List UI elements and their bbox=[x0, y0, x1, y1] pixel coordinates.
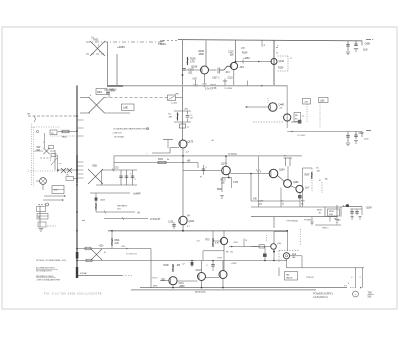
wire Q174 to Q184 bbox=[230, 173, 269, 175]
wire emitter Q104 to ground bbox=[204, 74, 206, 84]
svg-text:R171: R171 bbox=[158, 158, 164, 161]
wire heater return bbox=[77, 275, 122, 277]
wire +225V top bus bbox=[178, 40, 362, 41]
wire feed Q744 bbox=[229, 246, 271, 248]
svg-text:+2280: +2280 bbox=[179, 286, 186, 288]
filter capacitor C601C bbox=[132, 170, 134, 185]
transistor Q213 bbox=[296, 185, 303, 192]
wire left drop to rail bbox=[150, 249, 152, 288]
svg-text:Q104: Q104 bbox=[191, 65, 198, 69]
svg-text:R187: R187 bbox=[305, 175, 311, 177]
capacitor C175 bbox=[231, 178, 233, 189]
svg-text:+ INPUT SIGNAL AMPLIFIER: + INPUT SIGNAL AMPLIFIER bbox=[36, 279, 61, 282]
svg-text:REFERENCE DIAGS: REFERENCE DIAGS bbox=[36, 275, 54, 278]
svg-text:4.7K: 4.7K bbox=[215, 243, 220, 245]
capacitor C103 bbox=[182, 68, 186, 70]
title registered mark bbox=[353, 291, 359, 297]
transistor Q724 bbox=[198, 273, 206, 281]
wire -150V rail bbox=[251, 206, 342, 208]
wire vertical from transformer bbox=[107, 42, 109, 86]
wire 17.5VAC feed bbox=[96, 211, 135, 213]
regulator outline box bbox=[303, 167, 313, 169]
wire output Q114 to Q134 bbox=[236, 61, 273, 63]
capacitor C193 bbox=[173, 222, 175, 229]
svg-text:+5 AMP: +5 AMP bbox=[133, 193, 141, 196]
svg-text:+17XX: +17XX bbox=[231, 263, 238, 265]
svg-text:17.5 AC RT: 17.5 AC RT bbox=[150, 218, 161, 221]
svg-text:THRU +: THRU + bbox=[322, 228, 330, 230]
thermistor box bbox=[168, 95, 176, 101]
emitter network blob bbox=[298, 120, 302, 124]
svg-text:+225V: +225V bbox=[117, 45, 125, 49]
svg-text:2.2K: 2.2K bbox=[115, 243, 120, 245]
svg-text:Q134: Q134 bbox=[279, 60, 285, 63]
wire collector Q734 bbox=[222, 261, 224, 271]
resistor pair feedback bbox=[284, 157, 293, 159]
svg-text:Q193: Q193 bbox=[189, 220, 195, 223]
resistor on feed bbox=[85, 247, 91, 250]
wire collector Q724 bbox=[201, 261, 203, 273]
svg-text:15K: 15K bbox=[177, 265, 181, 267]
lamp housing bbox=[52, 186, 64, 194]
wire vertical winding return bbox=[116, 54, 118, 86]
resistor R171 bbox=[158, 161, 166, 163]
svg-text:C+100: C+100 bbox=[171, 103, 178, 105]
transistor Q194 bbox=[284, 180, 292, 188]
resistor R641 drop bbox=[111, 231, 113, 238]
wire winding to line box bbox=[105, 112, 131, 114]
wire base Q104 bbox=[183, 69, 201, 71]
filter capacitor C601B bbox=[126, 170, 128, 185]
svg-text:C+25: C+25 bbox=[168, 222, 174, 224]
transistor Q104 bbox=[201, 66, 209, 74]
svg-text:10K: 10K bbox=[230, 54, 234, 57]
wire feedback drop bbox=[287, 166, 289, 180]
capacitor across winding bbox=[108, 91, 110, 98]
svg-text:2.7K: 2.7K bbox=[190, 61, 195, 64]
svg-text:R709: R709 bbox=[164, 265, 170, 267]
wire dropdown C164 bbox=[258, 157, 260, 208]
svg-text:6.3V AC: 6.3V AC bbox=[205, 88, 213, 91]
junction dots on rails bbox=[182, 155, 184, 157]
wire lower link bbox=[251, 200, 300, 202]
svg-text:B10K: B10K bbox=[217, 189, 223, 191]
svg-text:TEK: TEK bbox=[368, 292, 373, 295]
wire winding to divider bbox=[105, 97, 168, 99]
svg-text:100K: 100K bbox=[199, 53, 205, 56]
transistor Q114 bbox=[230, 62, 237, 69]
wire lower feed bbox=[77, 260, 287, 262]
wire feed to Q144 bbox=[245, 106, 269, 108]
wire emitter Q704 down bbox=[223, 245, 225, 271]
wire bus corner down right bbox=[286, 86, 288, 128]
transistor Q704 upper bbox=[220, 237, 227, 244]
line voltage box bbox=[122, 104, 135, 111]
svg-text:+15V: +15V bbox=[233, 242, 238, 244]
svg-text:ALL READINGS WITH: ALL READINGS WITH bbox=[36, 267, 55, 270]
rectifier cluster D601 bbox=[104, 89, 112, 91]
potentiometer crossed bbox=[91, 249, 102, 260]
transistor Q754 dashed box bbox=[279, 250, 300, 252]
resistor R602 pair bbox=[58, 169, 77, 171]
bias box bbox=[294, 113, 301, 122]
node collector Q114 bbox=[235, 61, 237, 63]
resistor box R158 bbox=[328, 209, 340, 216]
wire into base Q114 bbox=[220, 66, 231, 70]
resistor R187 bbox=[311, 172, 313, 179]
wire +310 feed bbox=[77, 248, 122, 250]
wire stub test point bbox=[261, 41, 263, 48]
transistor Q174 bbox=[222, 166, 231, 175]
wire output rail upper bbox=[140, 287, 347, 289]
resistor R603 bbox=[95, 203, 97, 210]
svg-text:SEE PARTS: SEE PARTS bbox=[117, 205, 128, 208]
svg-text:R175: R175 bbox=[221, 180, 227, 182]
wire +325V lower heavy bus bbox=[108, 230, 288, 232]
resistor R103 bbox=[187, 57, 189, 65]
svg-text:A & B (AND C): A & B (AND C) bbox=[313, 296, 328, 299]
wire output feed rail bbox=[287, 267, 363, 269]
junction dots lower rails bbox=[182, 230, 184, 232]
svg-text:POWER: POWER bbox=[304, 220, 312, 222]
ground -150 left bbox=[336, 205, 338, 219]
wire collector Q174 up bbox=[225, 157, 227, 167]
svg-text:R641: R641 bbox=[115, 240, 121, 242]
tick marks on inverter wire bbox=[256, 169, 258, 172]
wire bus corner to +100V rail bbox=[287, 131, 362, 133]
filter capacitor C601A bbox=[120, 170, 122, 185]
fuse F601 label under bus bbox=[96, 89, 107, 95]
filter blob below bbox=[180, 124, 186, 128]
svg-text:TYPE RM45A: TYPE RM45A bbox=[286, 220, 298, 223]
wire emitter Q213 down bbox=[299, 193, 301, 207]
svg-text:Q174: Q174 bbox=[221, 163, 227, 166]
transistor Q173 upper bbox=[179, 140, 187, 148]
wire collector drop Q114 bbox=[235, 41, 237, 62]
svg-text:.001: .001 bbox=[188, 72, 193, 75]
bus tick mark bbox=[82, 220, 85, 222]
transformer T601 upper winding bbox=[90, 41, 105, 56]
wire Q184 to Q194 bbox=[278, 176, 284, 182]
arrow to heaters upper bbox=[44, 195, 64, 197]
RC pair on +225 drop bbox=[174, 110, 191, 112]
wire emitter Q714 bbox=[172, 285, 174, 288]
wire left ground bus bbox=[76, 86, 78, 278]
capacitor above bus bbox=[224, 79, 226, 86]
resistor R601 bbox=[58, 131, 77, 133]
capacitor C603 bbox=[95, 198, 98, 201]
resistor R709 bbox=[172, 264, 174, 272]
wire emitter Q114 down bbox=[233, 70, 235, 86]
wire -150V lower rail bbox=[251, 216, 337, 218]
select value box bbox=[285, 272, 298, 281]
resistor R175 bbox=[221, 178, 223, 193]
capacitor drop bbox=[212, 261, 214, 272]
transistor Q134 in dashed outline bbox=[271, 59, 277, 65]
filter caps +100V rail bbox=[347, 132, 349, 143]
wire collector Q744 top bbox=[274, 232, 287, 244]
wire -150V output link bbox=[342, 206, 362, 208]
dotted feedback line bbox=[319, 103, 321, 129]
transformer T601 middle winding bbox=[89, 97, 105, 113]
ground below Q104 bbox=[202, 83, 206, 85]
wire winding bottom lead bbox=[96, 184, 137, 186]
wire +325V heavy bus bbox=[107, 85, 288, 87]
svg-text:+350: +350 bbox=[192, 78, 198, 81]
wire emitter Q193 bbox=[182, 225, 184, 231]
svg-text:C601: C601 bbox=[92, 165, 98, 168]
wire down to ground block bbox=[39, 206, 41, 228]
svg-text:B1040 (220): B1040 (220) bbox=[195, 291, 206, 293]
wire column Q744 bbox=[273, 217, 275, 228]
svg-text:Q164: Q164 bbox=[279, 169, 285, 172]
svg-text:R134: R134 bbox=[278, 67, 284, 70]
svg-text:AT 325 B+: AT 325 B+ bbox=[228, 153, 238, 156]
svg-text:C618: C618 bbox=[359, 133, 365, 135]
switch internal wiring detail bbox=[44, 133, 46, 148]
wire drop to bus from Q134 bbox=[247, 81, 249, 86]
wire base feed Q174 bbox=[183, 170, 222, 172]
svg-text:115V: 115V bbox=[54, 190, 59, 192]
transistor Q744 bbox=[271, 244, 277, 250]
ground chassis bbox=[39, 228, 43, 230]
wire base Q173 bbox=[152, 148, 179, 154]
component near bus mid bbox=[66, 177, 74, 181]
filter caps -150V bbox=[350, 208, 362, 210]
wire collector column Q134 bbox=[273, 41, 275, 86]
svg-text:C608: C608 bbox=[365, 43, 371, 46]
filter capacitors C608 at +225V rail end bbox=[347, 41, 349, 52]
transistor Q184 bbox=[269, 169, 278, 178]
svg-text:F601: F601 bbox=[97, 91, 103, 94]
wire stub above bus bbox=[195, 80, 197, 86]
wire drop x96 bbox=[95, 193, 97, 212]
dashed link Q144 bbox=[267, 98, 269, 103]
svg-text:-150V: -150V bbox=[366, 206, 373, 210]
switch contacts bbox=[43, 148, 49, 154]
wire collector Q704 bbox=[223, 231, 225, 238]
resistor left of box bbox=[278, 268, 280, 277]
wire winding lead y193 bbox=[90, 192, 130, 194]
svg-text:+125V: +125V bbox=[243, 57, 250, 60]
divider cluster right bbox=[197, 163, 199, 169]
resistor network Q704 bbox=[212, 238, 214, 247]
wire dropdown second bbox=[280, 188, 282, 208]
wire power switch feed bbox=[28, 115, 77, 117]
bias box +15V bbox=[303, 99, 311, 105]
wire emitter Q174 bbox=[228, 174, 230, 178]
wire Q724-Q734 link bbox=[206, 277, 220, 279]
voltage check drops bbox=[355, 268, 357, 288]
wire Q754 down bbox=[286, 259, 288, 268]
wire Q194 to Q213 bbox=[291, 186, 296, 188]
svg-text:+15V: +15V bbox=[304, 102, 309, 104]
svg-text:NOTE ALL VOLTAGES READ +-10%: NOTE ALL VOLTAGES READ +-10% bbox=[36, 259, 66, 262]
wire tap to -150 rail bbox=[250, 174, 252, 202]
wire Q754 out bbox=[290, 256, 302, 268]
svg-text:C115: C115 bbox=[228, 77, 234, 80]
svg-text:Q184: Q184 bbox=[293, 181, 299, 184]
wire base feed Q704 bbox=[203, 251, 224, 261]
svg-text:VALUE: VALUE bbox=[286, 277, 293, 280]
transistor Q144 bbox=[269, 103, 277, 111]
svg-text:117V: 117V bbox=[111, 91, 116, 93]
svg-text:NO SIGNAL: NO SIGNAL bbox=[114, 136, 125, 139]
capacitor C173 bbox=[163, 139, 173, 141]
emitters to rail bbox=[201, 281, 203, 288]
fuse holder bbox=[46, 203, 49, 206]
capacitor C107 bbox=[209, 69, 217, 71]
svg-text:Q173: Q173 bbox=[188, 141, 194, 144]
dashed tap Q213 bbox=[321, 182, 323, 193]
junction blob bbox=[76, 252, 79, 259]
svg-text:VOLTAGES AND WAVEFORMS SHOWN: VOLTAGES AND WAVEFORMS SHOWN bbox=[113, 127, 150, 130]
wire stub with ground bbox=[311, 217, 313, 222]
svg-text:5.6K: 5.6K bbox=[329, 214, 334, 216]
component drop small bbox=[191, 261, 193, 268]
terminal block bbox=[37, 207, 46, 212]
wire collector drop Q104 bbox=[205, 41, 207, 67]
svg-text:47K: 47K bbox=[241, 47, 245, 50]
wire vertical bus left drop bbox=[182, 40, 184, 140]
transistor Q714 bbox=[169, 277, 177, 285]
arrow on +100 rail bbox=[292, 131, 294, 133]
svg-text:-10.6: -10.6 bbox=[239, 66, 245, 69]
node base divider bbox=[182, 74, 184, 76]
svg-text:+ LINE 117V: + LINE 117V bbox=[112, 133, 123, 135]
svg-text:C714: C714 bbox=[179, 283, 185, 285]
svg-text:T601: T601 bbox=[93, 38, 99, 42]
transistor Q734 bbox=[219, 271, 227, 279]
svg-text:TO +100V: TO +100V bbox=[297, 135, 306, 137]
svg-text:FIG. 5-12 TEK 545B OSCILLOSC: FIG. 5-12 TEK 545B OSCILLOSCOPE bbox=[44, 292, 102, 295]
svg-text:4.7K: 4.7K bbox=[212, 87, 217, 90]
wire output heavy band bbox=[131, 289, 316, 291]
bias component Q744 bbox=[251, 246, 258, 248]
transistor Q193 lower bbox=[179, 216, 187, 224]
label +100V plate bbox=[319, 98, 329, 103]
wire heater rail bbox=[104, 218, 148, 220]
transistor Q154 on bus drop bbox=[284, 114, 291, 121]
svg-text:NO SIGNAL INPUT: NO SIGNAL INPUT bbox=[36, 269, 53, 272]
lamp housing inner bbox=[52, 189, 64, 191]
wire heater dash-dot rail bbox=[86, 41, 163, 43]
resistor R156 bbox=[324, 207, 326, 217]
svg-text:1 TO 2: 1 TO 2 bbox=[152, 278, 159, 280]
svg-text:6.3V AC: 6.3V AC bbox=[80, 272, 88, 275]
transformer T601 lower winding bbox=[88, 169, 103, 184]
filter block FL601 bbox=[37, 214, 48, 220]
wire drop x265 bbox=[264, 247, 266, 261]
base network Q714 bbox=[160, 280, 169, 282]
svg-text:LINE: LINE bbox=[123, 107, 128, 110]
wire divider rail bbox=[114, 162, 198, 164]
svg-text:C175: C175 bbox=[233, 182, 239, 184]
lower resistor link bbox=[315, 224, 341, 226]
switch SW601 ganged dotted box bbox=[31, 124, 33, 186]
wire winding top lead bbox=[102, 169, 138, 171]
thermal cutout wiring bbox=[54, 150, 56, 170]
svg-text:Q445: Q445 bbox=[279, 104, 285, 107]
svg-text:TO CRT CKT: TO CRT CKT bbox=[126, 254, 138, 256]
wire emitter Q173 down bbox=[182, 148, 184, 217]
arrow to heaters lower bbox=[43, 199, 62, 201]
svg-text:TYPE 547: TYPE 547 bbox=[306, 277, 315, 279]
svg-text:R114: R114 bbox=[242, 52, 248, 55]
pilot lamp B601 bbox=[40, 178, 47, 185]
svg-text:TYPE: TYPE bbox=[217, 258, 223, 260]
svg-text:TO HTRS: TO HTRS bbox=[224, 88, 233, 90]
wire -150V sense rail bbox=[114, 155, 302, 157]
